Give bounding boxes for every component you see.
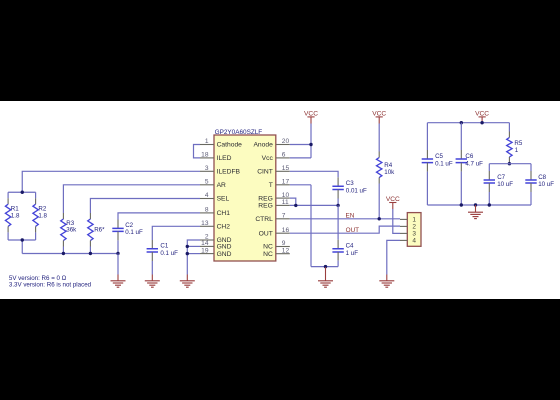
node R1R2 top [21, 191, 24, 194]
svg-text:1: 1 [412, 217, 416, 224]
node rail C6 [460, 121, 463, 124]
supply VCC1 [304, 110, 318, 123]
U1 pin 6 Vcc [262, 152, 290, 163]
resistor R5 [507, 123, 523, 164]
supply VCC4 [475, 110, 489, 122]
node Anode VCC [309, 143, 312, 146]
ground G2 [145, 275, 160, 288]
capacitor C2 [112, 220, 143, 254]
svg-text:C4: C4 [346, 243, 354, 250]
U1 pin 19 GND [200, 247, 232, 257]
node rail ground [474, 203, 477, 206]
U1 pin 15 CINT [257, 165, 290, 176]
ground G6 [468, 205, 483, 219]
svg-text:1: 1 [205, 138, 209, 145]
resistor R6* [88, 213, 105, 254]
U1 pin 20 Anode [253, 138, 289, 149]
node R6 bottom rail [89, 252, 92, 255]
U1 pin 7 CTRL [255, 213, 289, 224]
node GND19 [186, 252, 189, 255]
svg-text:0.1 uF: 0.1 uF [160, 250, 178, 257]
svg-text:GP2Y0A60SZLF: GP2Y0A60SZLF [215, 129, 263, 136]
svg-text:CH1: CH1 [217, 210, 231, 217]
svg-text:20: 20 [282, 138, 290, 145]
svg-text:10 uF: 10 uF [497, 181, 513, 188]
svg-text:2: 2 [412, 224, 416, 231]
U1 pin 4 SEL [200, 192, 230, 203]
capacitor C4 [332, 240, 358, 267]
svg-text:ILEDFB: ILEDFB [217, 169, 241, 176]
svg-text:4: 4 [205, 192, 209, 199]
svg-text:ILED: ILED [217, 155, 232, 162]
U1 pin 1 Cathode [200, 138, 242, 149]
wire AR to R3 [63, 185, 200, 213]
svg-text:NC: NC [263, 244, 273, 251]
wire T net [290, 185, 338, 267]
wire CINT to C3 [290, 171, 338, 177]
svg-text:18: 18 [201, 152, 209, 159]
svg-text:3.3V version: R6 is not placed: 3.3V version: R6 is not placed [9, 281, 92, 288]
svg-text:GND: GND [217, 251, 232, 258]
wire REG down to C4 [337, 205, 339, 239]
U1 pin 13 CH2 [200, 220, 230, 231]
U1 pin 12 NC [263, 247, 290, 258]
capacitor C3 [332, 177, 367, 205]
svg-text:15: 15 [282, 165, 290, 172]
wire VCC to Anode and Vcc [290, 124, 311, 158]
J1 pin 4 stub [400, 239, 407, 241]
resistor R3 [61, 213, 77, 254]
net label OUT [346, 227, 360, 234]
svg-text:Vcc: Vcc [262, 155, 274, 162]
svg-text:1.8: 1.8 [11, 212, 20, 219]
resistor R2 [33, 192, 48, 240]
node rail VCC [480, 121, 483, 124]
svg-text:7: 7 [282, 213, 286, 220]
capacitor C6 [456, 123, 484, 205]
node T/C4 ground tap [324, 265, 327, 268]
svg-text:1 uF: 1 uF [346, 250, 359, 257]
U1 pin 10 REG [258, 192, 290, 203]
svg-text:5: 5 [205, 179, 209, 186]
wire GND pins bracket [187, 240, 200, 275]
svg-text:4.7 uF: 4.7 uF [465, 161, 483, 168]
U1 pin 17 T [269, 179, 290, 190]
connector J1 [407, 213, 421, 247]
ground G3 [180, 275, 195, 288]
capacitor C7 [484, 164, 514, 205]
svg-text:NC: NC [263, 251, 273, 258]
wire connector pin4 to ground [387, 240, 400, 274]
svg-text:3: 3 [412, 231, 416, 238]
svg-text:17: 17 [282, 179, 290, 186]
svg-text:4: 4 [412, 238, 416, 245]
svg-text:9: 9 [282, 240, 286, 247]
U1 pin 11 REG [258, 199, 290, 210]
svg-text:10 uF: 10 uF [538, 181, 554, 188]
resistor R1 [5, 192, 20, 240]
svg-text:Cathode: Cathode [217, 142, 243, 149]
wire OUT net [290, 226, 400, 233]
svg-text:GND: GND [217, 244, 232, 251]
capacitor C1 [147, 240, 179, 275]
node EN R4 [378, 217, 381, 220]
capacitor C5 [422, 123, 453, 205]
svg-text:12: 12 [282, 247, 290, 254]
svg-text:0.01 uF: 0.01 uF [346, 188, 367, 195]
wire CH1 to C2 [118, 213, 200, 220]
wire bottom rail [427, 204, 531, 206]
svg-text:3: 3 [205, 165, 209, 172]
svg-text:19: 19 [201, 247, 209, 254]
svg-text:1: 1 [515, 147, 519, 154]
wire R5 to C7 C8 [489, 163, 531, 165]
svg-text:CH2: CH2 [217, 224, 231, 231]
svg-text:T: T [269, 182, 273, 189]
U1 pin 5 AR [200, 179, 226, 190]
J1 pin 1 stub [400, 218, 407, 220]
svg-text:13: 13 [201, 220, 209, 227]
node rail C6 bottom [460, 203, 463, 206]
wire CH2 to C1 [152, 226, 200, 240]
svg-text:11: 11 [282, 199, 289, 206]
svg-text:R6*: R6* [94, 226, 105, 233]
svg-text:R5: R5 [514, 140, 522, 147]
U1 pin 9 NC [263, 240, 290, 251]
U1 pin 16 OUT [259, 227, 290, 238]
U1 pin 18 ILED [200, 152, 232, 163]
svg-text:14: 14 [201, 240, 209, 247]
svg-text:C6: C6 [465, 153, 473, 160]
node R3 bottom rail [62, 252, 65, 255]
U1 pin 3 ILEDFB [200, 165, 241, 176]
svg-text:C1: C1 [160, 243, 168, 250]
node R5 bottom [508, 162, 511, 165]
node rail C7 bottom [488, 203, 491, 206]
wire rail to ground [117, 254, 119, 275]
svg-text:REG: REG [258, 203, 273, 210]
svg-text:C7: C7 [497, 174, 505, 181]
svg-text:Anode: Anode [253, 142, 273, 149]
wire REG pins [290, 198, 338, 205]
supply VCC3 above connector [386, 196, 400, 209]
wire SEL to R6 [90, 199, 200, 214]
svg-text:10: 10 [282, 192, 290, 199]
J1 pin 2 stub [400, 225, 407, 227]
svg-text:AR: AR [217, 182, 226, 189]
node GND14 [186, 245, 189, 248]
svg-text:SEL: SEL [217, 196, 230, 203]
net label EN [346, 212, 355, 219]
svg-text:0.1 uF: 0.1 uF [125, 229, 143, 236]
node R1R2 bottom [21, 238, 24, 241]
svg-text:16: 16 [282, 227, 290, 234]
node REG C3 [336, 204, 339, 207]
U1 pin 2 GND [200, 234, 232, 245]
U1 pin 14 GND [200, 240, 232, 251]
svg-text:C5: C5 [435, 153, 443, 160]
svg-text:0.1 uF: 0.1 uF [435, 161, 453, 168]
svg-text:8: 8 [205, 207, 209, 214]
ground G1 [111, 275, 126, 288]
svg-text:C8: C8 [538, 174, 546, 181]
node C2 rail [116, 252, 119, 255]
wire R1/R2 bottom to GND rail [8, 240, 118, 254]
node REG join [294, 204, 297, 207]
svg-text:CTRL: CTRL [255, 216, 273, 223]
svg-text:C2: C2 [125, 222, 133, 229]
svg-text:OUT: OUT [259, 230, 273, 237]
U1 pin 8 CH1 [200, 207, 230, 218]
ground G5 [379, 275, 394, 288]
wire EN net [290, 218, 400, 220]
IC U1 GP2Y0A60SZLF body [214, 129, 276, 261]
svg-text:C3: C3 [346, 180, 354, 187]
J1 pin 3 stub [400, 232, 407, 234]
svg-text:36k: 36k [66, 226, 77, 233]
svg-text:REG: REG [258, 195, 273, 202]
svg-text:10k: 10k [384, 169, 395, 176]
svg-text:CINT: CINT [257, 169, 273, 176]
wire VCC to connector pin3 [393, 209, 400, 233]
resistor R4 [377, 124, 396, 219]
supply VCC2 [372, 110, 386, 123]
wire Cathode-ILED bracket [194, 145, 201, 158]
capacitor C8 [525, 164, 554, 205]
note text [9, 275, 92, 289]
svg-text:1.8: 1.8 [38, 212, 47, 219]
wire top rail [427, 122, 509, 124]
svg-text:6: 6 [282, 152, 286, 159]
ground G4 [318, 267, 333, 287]
wire ILEDFB to R1/R2 top [8, 171, 200, 192]
